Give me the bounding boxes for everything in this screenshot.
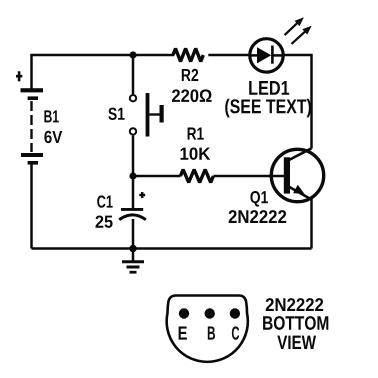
pin label B: [208, 327, 215, 340]
transistor Q1: [229, 148, 324, 223]
transistor 2N2222 bottom view case: [167, 296, 248, 362]
LED LED1: [225, 17, 311, 117]
wire R1 to base: [213, 175, 284, 178]
collector lead: [288, 148, 312, 160]
capacitor C1: [96, 176, 146, 249]
wire emitter to bottom rail: [310, 199, 313, 249]
label R1: [188, 128, 204, 140]
value 10K: [180, 147, 210, 159]
note SEE TEXT: [225, 99, 311, 118]
node junction top (S1 tap): [129, 51, 136, 58]
wire left rail lower: [30, 164, 33, 249]
label S1: [108, 108, 124, 120]
switch S1: [108, 55, 163, 176]
value 25: [96, 215, 113, 227]
emitter lead with arrow: [289, 187, 312, 200]
LED diode triangle and cathode bar: [257, 47, 271, 63]
label R2: [182, 69, 198, 81]
switch terminal circles: [130, 95, 136, 101]
battery cell plates: [21, 88, 44, 92]
value 2N2222: [229, 210, 287, 223]
label Q1: [250, 191, 267, 207]
resistor R1: [180, 128, 213, 183]
transistor base bar: [284, 157, 290, 193]
capacitor plates: [121, 208, 143, 211]
battery plus sign: [16, 71, 22, 81]
node A (R1/C1/S1 junction): [129, 172, 136, 179]
LED light emission arrows: [285, 23, 298, 35]
battery B1: [16, 71, 62, 164]
wire top-left rail: [32, 55, 175, 90]
wire R2 to LED: [208, 54, 250, 57]
value 6V: [44, 131, 62, 143]
pin label E: [179, 327, 187, 340]
wire LED to collector: [283, 55, 312, 149]
pushbutton actuator: [146, 93, 150, 137]
ground: [122, 245, 144, 272]
label BOTTOM: [263, 316, 328, 330]
wire node to R1: [133, 175, 181, 178]
label 2N2222 bottom view text: [263, 298, 328, 349]
pin dots E B C: [179, 308, 189, 318]
label B1: [44, 110, 58, 122]
label VIEW: [277, 336, 316, 349]
pin label C: [232, 326, 239, 339]
resistor R2: [172, 49, 212, 103]
value 220 ohm: [172, 89, 212, 102]
wire bottom rail: [32, 247, 312, 250]
label LED1: [249, 81, 289, 95]
label 2N2222: [266, 298, 324, 311]
label C1: [97, 195, 112, 207]
